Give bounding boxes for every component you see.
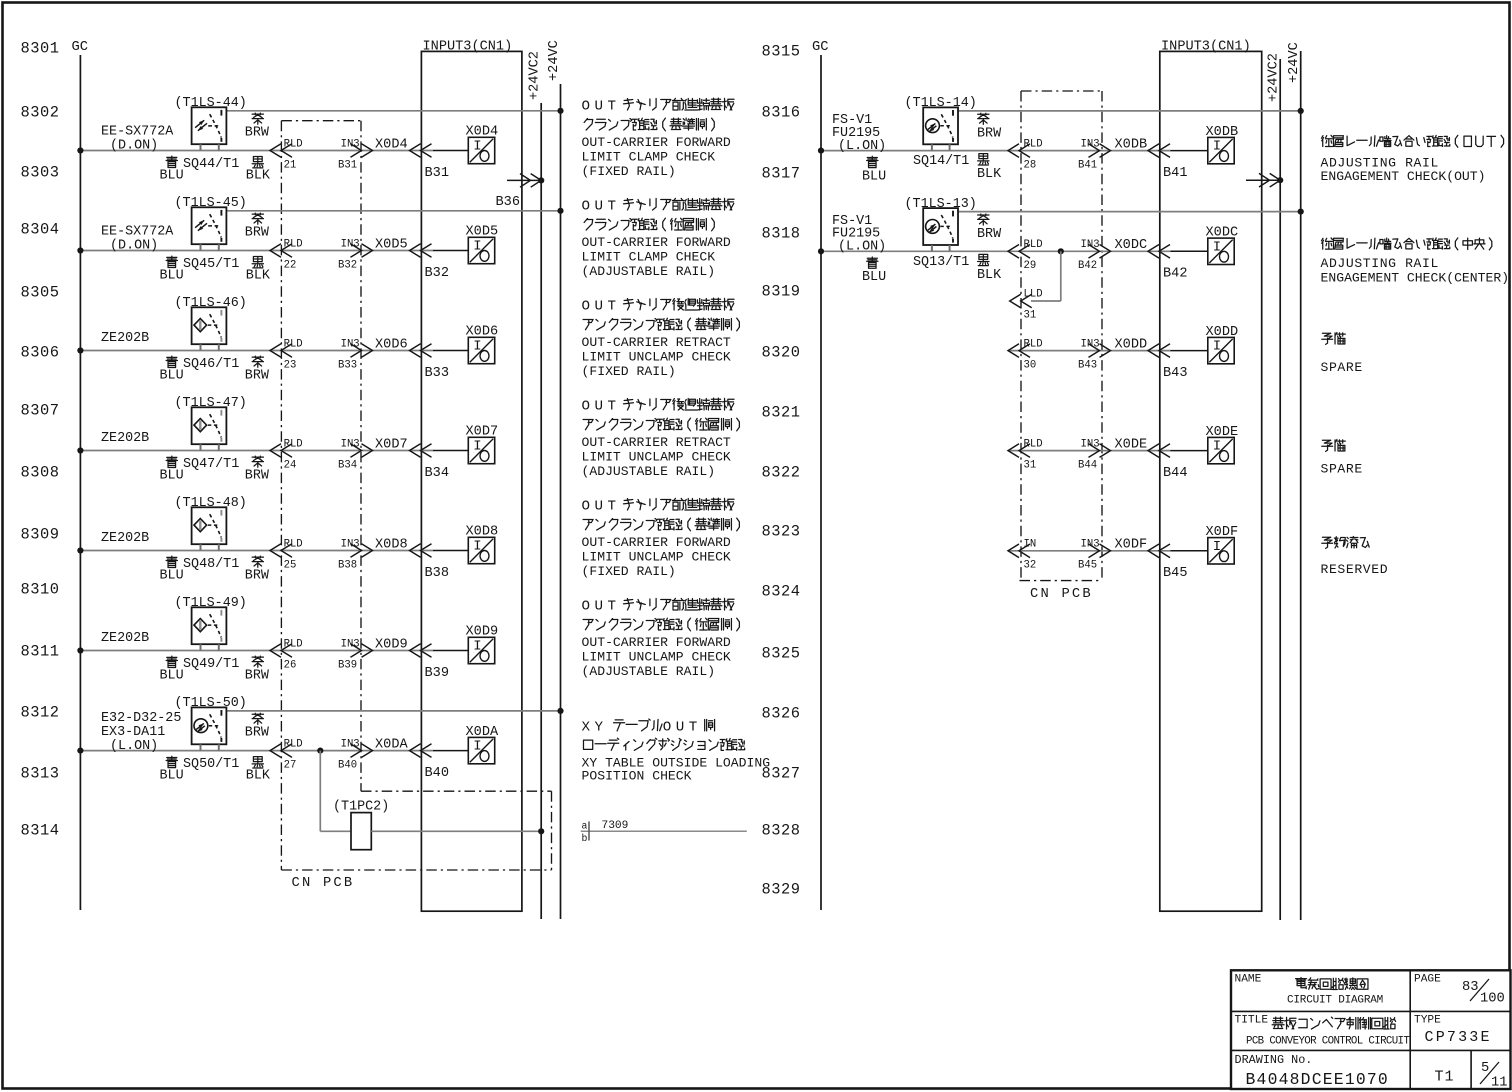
wire arrow to I/O box <box>433 750 468 752</box>
svg-text:26: 26 <box>284 659 297 671</box>
power rail +24VC left <box>560 84 562 919</box>
svg-text:BLK: BLK <box>246 168 271 183</box>
svg-text:B32: B32 <box>338 259 357 271</box>
svg-text:XY: XY <box>582 719 608 735</box>
svg-text:8309: 8309 <box>21 526 60 544</box>
svg-text:IN3: IN3 <box>1081 239 1100 251</box>
svg-text:X0D6: X0D6 <box>466 325 499 340</box>
svg-text:(T1LS-50): (T1LS-50) <box>175 696 247 711</box>
svg-text:24: 24 <box>284 459 297 471</box>
svg-text:B43: B43 <box>1163 366 1187 381</box>
svg-text:B42: B42 <box>1163 267 1187 282</box>
wire rung X0DD horizontal <box>1008 350 1171 352</box>
wire SQ45/T1 BRW to +24VC <box>226 210 560 212</box>
svg-text:B34: B34 <box>338 459 357 471</box>
svg-text:B31: B31 <box>425 166 449 181</box>
svg-text:PAGE: PAGE <box>1414 974 1441 986</box>
svg-text:(T1LS-46): (T1LS-46) <box>175 296 247 311</box>
junction GC right <box>818 248 824 254</box>
junction +24VC <box>557 708 563 714</box>
svg-text:8317: 8317 <box>762 165 801 183</box>
svg-text:RLD: RLD <box>284 238 303 250</box>
svg-text:RLD: RLD <box>284 438 303 450</box>
svg-text:X0DD: X0DD <box>1206 325 1239 340</box>
svg-text:SQ47/T1: SQ47/T1 <box>183 457 239 472</box>
svg-text:RLD: RLD <box>284 738 303 750</box>
svg-text:X0D9: X0D9 <box>375 637 408 652</box>
svg-text:BLU: BLU <box>160 568 184 583</box>
svg-text:8322: 8322 <box>762 464 801 482</box>
connector pin arrow at INPUT3 right <box>1148 444 1170 458</box>
svg-text:8303: 8303 <box>21 164 60 182</box>
svg-text:8319: 8319 <box>762 283 801 301</box>
svg-text:(FIXED RAIL): (FIXED RAIL) <box>582 564 676 579</box>
svg-text:B32: B32 <box>425 266 449 281</box>
svg-text:SQ13/T1: SQ13/T1 <box>913 255 969 270</box>
svg-text:B41: B41 <box>1078 159 1097 171</box>
wire rung X0D4 horizontal <box>80 150 433 152</box>
svg-text:BLU: BLU <box>160 768 184 783</box>
svg-text:B33: B33 <box>425 366 449 381</box>
svg-text:CIRCUIT DIAGRAM: CIRCUIT DIAGRAM <box>1287 995 1383 1007</box>
svg-text:8314: 8314 <box>21 822 60 840</box>
wire rung X0DF horizontal <box>1008 550 1171 552</box>
svg-text:X0DF: X0DF <box>1206 525 1239 540</box>
svg-text:T1: T1 <box>1435 1069 1455 1086</box>
connector pins RLD 28 / IN3 B41 <box>1008 144 1030 158</box>
connector pins IN 32 / IN3 B45 <box>1008 544 1030 558</box>
svg-text:IN3: IN3 <box>341 438 360 450</box>
junction rung X0DC to LLD <box>1058 248 1064 254</box>
label wire colors <box>252 213 263 224</box>
svg-text:8306: 8306 <box>21 344 60 362</box>
wire GC bus right <box>820 55 822 910</box>
svg-text:B39: B39 <box>338 659 357 671</box>
svg-text:IN3: IN3 <box>341 238 360 250</box>
svg-text:E32-D32-25: E32-D32-25 <box>101 711 181 726</box>
svg-text:B42: B42 <box>1078 260 1097 272</box>
svg-text:X0DC: X0DC <box>1206 226 1239 241</box>
junction +24VC right <box>1298 108 1304 114</box>
svg-text:OUT-CARRIER FORWARD: OUT-CARRIER FORWARD <box>582 635 731 650</box>
svg-text:INPUT3(CN1): INPUT3(CN1) <box>1161 40 1251 55</box>
svg-text:SQ45/T1: SQ45/T1 <box>183 257 239 272</box>
wire rung X0D5 horizontal <box>80 250 433 252</box>
svg-text:SQ50/T1: SQ50/T1 <box>183 757 239 772</box>
svg-text:8308: 8308 <box>21 464 60 482</box>
svg-text:IN3: IN3 <box>341 738 360 750</box>
junction GC <box>77 147 83 153</box>
svg-text:OUT-CARRIER RETRACT: OUT-CARRIER RETRACT <box>582 435 731 450</box>
svg-text:(T1LS-49): (T1LS-49) <box>175 596 247 611</box>
power rail +24VC right <box>1300 51 1302 920</box>
I/O input X0DF <box>1208 538 1234 564</box>
pin B36 arrow to +24VC2 <box>507 179 541 181</box>
svg-text:(T1LS-13): (T1LS-13) <box>905 197 977 212</box>
svg-text:B36: B36 <box>496 195 520 210</box>
svg-text:32: 32 <box>1024 560 1037 572</box>
wire SQ14/T1 BRW to +24VC right <box>958 110 1301 112</box>
wire LLD 31 <box>1060 251 1062 301</box>
svg-text:BRW: BRW <box>245 468 270 483</box>
svg-text:21: 21 <box>284 159 297 171</box>
sensor pins SQ46/T1 <box>200 344 202 350</box>
junction +24VC right <box>1298 209 1304 215</box>
wire arrow to I/O box <box>433 450 468 452</box>
power rail +24VC2 right <box>1279 59 1281 920</box>
svg-text:BLK: BLK <box>246 768 271 783</box>
label wire colors right <box>978 214 989 225</box>
svg-text:8313: 8313 <box>21 765 60 783</box>
svg-text:(FIXED RAIL): (FIXED RAIL) <box>582 164 676 179</box>
svg-text:B43: B43 <box>1078 359 1097 371</box>
description right row 4 spare <box>1322 439 1345 451</box>
relay contact T1PC2 <box>351 813 371 850</box>
svg-text:OUT-CARRIER FORWARD: OUT-CARRIER FORWARD <box>582 535 731 550</box>
svg-text:8318: 8318 <box>762 225 801 243</box>
connector pin arrow at INPUT3 <box>410 644 432 658</box>
svg-text:CN PCB: CN PCB <box>292 876 355 891</box>
I/O input X0D5 <box>468 237 494 263</box>
svg-text:B34: B34 <box>425 466 449 481</box>
wire SQ13/T1 BRW to +24VC right <box>958 211 1301 213</box>
I/O input X0DA <box>468 737 494 763</box>
description right row 3 spare <box>1322 332 1345 344</box>
svg-text:SQ49/T1: SQ49/T1 <box>183 657 239 672</box>
svg-text:(L.ON): (L.ON) <box>838 240 886 255</box>
svg-text:OUT-CARRIER FORWARD: OUT-CARRIER FORWARD <box>582 235 731 250</box>
wire arrow to I/O box <box>433 350 468 352</box>
svg-text:X0D7: X0D7 <box>375 437 408 452</box>
svg-text:BLU: BLU <box>160 268 184 283</box>
svg-text:EE-SX772A: EE-SX772A <box>101 125 174 140</box>
connector pins RLD 29 / IN3 B42 <box>1008 245 1030 259</box>
sensor SQ13/T1 (T1LS-13) <box>923 208 958 245</box>
svg-text:OUT-CARRIER FORWARD: OUT-CARRIER FORWARD <box>582 135 731 150</box>
svg-text:LLD: LLD <box>1024 289 1043 301</box>
svg-text:OUT: OUT <box>582 599 621 615</box>
svg-text:OUT: OUT <box>582 299 621 315</box>
connector pins RLD 25 / IN3 B38 <box>270 544 292 558</box>
svg-text:IN3: IN3 <box>341 138 360 150</box>
svg-text:IN3: IN3 <box>1081 438 1100 450</box>
svg-text:100: 100 <box>1480 992 1505 1007</box>
svg-text:BRW: BRW <box>245 725 270 740</box>
svg-text:B40: B40 <box>425 766 449 781</box>
wire arrow to I/O box <box>433 250 468 252</box>
svg-text:LIMIT UNCLAMP CHECK: LIMIT UNCLAMP CHECK <box>582 650 731 665</box>
connector pin arrow at INPUT3 right <box>1148 245 1170 259</box>
sensor SQ46/T1 (T1LS-46) <box>192 307 227 344</box>
connector pin arrow at INPUT3 right <box>1148 144 1170 158</box>
svg-text:X0DA: X0DA <box>466 725 499 740</box>
sensor SQ44/T1 (T1LS-44) <box>192 107 227 144</box>
connector pin arrow at INPUT3 <box>410 144 432 158</box>
svg-text:B4048DCEE1070: B4048DCEE1070 <box>1246 1070 1389 1089</box>
svg-text:X0D7: X0D7 <box>466 425 499 440</box>
svg-text:SQ44/T1: SQ44/T1 <box>183 157 239 172</box>
connector pin arrow at INPUT3 right <box>1148 344 1170 358</box>
sensor pins <box>931 245 933 251</box>
svg-text:RLD: RLD <box>284 338 303 350</box>
svg-text:+24VC: +24VC <box>1287 42 1302 83</box>
svg-text:8328: 8328 <box>762 822 801 840</box>
svg-text:X0D5: X0D5 <box>375 237 408 252</box>
svg-text:+24VC2: +24VC2 <box>1267 53 1282 102</box>
svg-text:B44: B44 <box>1078 459 1097 471</box>
svg-text:(T1LS-44): (T1LS-44) <box>175 96 247 111</box>
svg-text:X0DB: X0DB <box>1115 137 1148 152</box>
svg-text:X0DD: X0DD <box>1115 337 1148 352</box>
svg-text:IN3: IN3 <box>341 338 360 350</box>
junction GC <box>77 247 83 253</box>
svg-text:BLU: BLU <box>160 368 184 383</box>
svg-text:ZE202B: ZE202B <box>101 331 149 346</box>
svg-text:8311: 8311 <box>21 643 60 661</box>
svg-text:OUT: OUT <box>582 99 621 115</box>
svg-text:ADJUSTING RAIL: ADJUSTING RAIL <box>1321 256 1439 271</box>
svg-text:SPARE: SPARE <box>1321 360 1363 375</box>
svg-text:B44: B44 <box>1163 466 1187 481</box>
svg-text:8321: 8321 <box>762 404 801 422</box>
wire rung X0DE horizontal <box>1008 450 1171 452</box>
svg-text:8325: 8325 <box>762 645 801 663</box>
svg-text:LIMIT CLAMP CHECK: LIMIT CLAMP CHECK <box>582 150 716 165</box>
svg-text:(L.ON): (L.ON) <box>838 139 886 154</box>
svg-text:SPARE: SPARE <box>1321 462 1363 477</box>
svg-text:BLU: BLU <box>862 169 886 184</box>
I/O input X0D7 <box>468 437 494 463</box>
svg-text:27: 27 <box>284 759 297 771</box>
connector pin arrow at INPUT3 <box>410 744 432 758</box>
svg-text:TYPE: TYPE <box>1414 1015 1441 1027</box>
wire rung X0D9 horizontal <box>80 650 433 652</box>
svg-text:BLU: BLU <box>160 168 184 183</box>
connector pin arrow at INPUT3 <box>410 244 432 258</box>
svg-text:8326: 8326 <box>762 705 801 723</box>
svg-text:IN3: IN3 <box>341 638 360 650</box>
svg-text:8310: 8310 <box>21 581 60 599</box>
svg-text:LIMIT UNCLAMP CHECK: LIMIT UNCLAMP CHECK <box>582 550 731 565</box>
description right row 5 reserved <box>1322 536 1369 548</box>
svg-text:X0DC: X0DC <box>1115 238 1148 253</box>
svg-text:X0D9: X0D9 <box>466 625 499 640</box>
svg-text:30: 30 <box>1024 359 1037 371</box>
svg-text:BLU: BLU <box>160 468 184 483</box>
svg-text:X0D8: X0D8 <box>466 525 499 540</box>
connector pins RLD 27 / IN3 B40 <box>270 744 292 758</box>
I/O input X0DE <box>1208 437 1234 463</box>
svg-text:OUT: OUT <box>582 499 621 515</box>
I/O input X0D6 <box>468 337 494 363</box>
wire rung X0D6 horizontal <box>80 350 433 352</box>
wire arrow to I/O box <box>433 150 468 152</box>
svg-text:X0D6: X0D6 <box>375 337 408 352</box>
wire rung X0DB horizontal <box>821 150 1171 152</box>
svg-text:POSITION CHECK: POSITION CHECK <box>582 769 692 784</box>
connector INPUT3(CN1) right box <box>1160 51 1262 911</box>
sensor SQ48/T1 (T1LS-48) <box>192 507 227 544</box>
I/O input X0DC <box>1208 238 1234 264</box>
label wire colors <box>166 356 177 367</box>
svg-text:RLD: RLD <box>1024 438 1043 450</box>
svg-text:ENGAGEMENT CHECK(OUT): ENGAGEMENT CHECK(OUT) <box>1321 169 1486 184</box>
svg-text:8304: 8304 <box>21 221 60 239</box>
svg-text:BRW: BRW <box>245 125 270 140</box>
svg-text:(T1LS-47): (T1LS-47) <box>175 396 247 411</box>
sensor SQ50/T1 (T1LS-50) <box>192 707 227 744</box>
svg-text:BLK: BLK <box>246 268 271 283</box>
junction +24VC <box>557 108 563 114</box>
connector pin arrow at INPUT3 right <box>1148 544 1170 558</box>
connector pins RLD 24 / IN3 B34 <box>270 444 292 458</box>
sensor SQ49/T1 (T1LS-49) <box>192 607 227 644</box>
svg-text:(ADJUSTABLE RAIL): (ADJUSTABLE RAIL) <box>582 664 716 679</box>
CN PCB dash-dot boundary right <box>1020 91 1022 581</box>
svg-text:RLD: RLD <box>284 538 303 550</box>
pin arrow to +24VC2 right <box>1246 179 1280 181</box>
svg-text:RLD: RLD <box>284 638 303 650</box>
wire GC bus left <box>79 55 81 910</box>
svg-text:X0D5: X0D5 <box>466 225 499 240</box>
svg-text:TITLE: TITLE <box>1235 1015 1269 1027</box>
svg-text:8302: 8302 <box>21 104 60 122</box>
svg-text:(D.ON): (D.ON) <box>110 139 158 154</box>
svg-text:8329: 8329 <box>762 881 801 899</box>
svg-text:IN3: IN3 <box>1081 539 1100 551</box>
connector pins RLD 23 / IN3 B33 <box>270 344 292 358</box>
svg-text:B31: B31 <box>338 159 357 171</box>
junction GC <box>77 748 83 754</box>
svg-text:BLU: BLU <box>160 668 184 683</box>
svg-text:X0D8: X0D8 <box>375 537 408 552</box>
connector pins RLD 21 / IN3 B31 <box>270 144 292 158</box>
svg-text:LIMIT UNCLAMP CHECK: LIMIT UNCLAMP CHECK <box>582 450 731 465</box>
svg-text:BRW: BRW <box>977 227 1002 242</box>
svg-text:8307: 8307 <box>21 402 60 420</box>
svg-text:GC: GC <box>72 40 89 55</box>
svg-text:X0D4: X0D4 <box>375 137 408 152</box>
I/O input X0DD <box>1208 337 1234 363</box>
wire rung X0D8 horizontal <box>80 550 433 552</box>
sensor pins <box>931 144 933 150</box>
svg-text:IN3: IN3 <box>1081 338 1100 350</box>
svg-text:(T1LS-48): (T1LS-48) <box>175 496 247 511</box>
svg-text:BLU: BLU <box>862 270 886 285</box>
junction +24VC2 T1PC2 <box>538 828 544 834</box>
svg-text:ZE202B: ZE202B <box>101 431 149 446</box>
svg-text:SQ46/T1: SQ46/T1 <box>183 357 239 372</box>
svg-text:ENGAGEMENT CHECK(CENTER): ENGAGEMENT CHECK(CENTER) <box>1321 271 1510 286</box>
svg-text:22: 22 <box>284 259 297 271</box>
svg-text:a: a <box>582 821 588 832</box>
connector pins RLD 30 / IN3 B43 <box>1008 344 1030 358</box>
svg-text:8301: 8301 <box>21 40 60 58</box>
svg-text:8324: 8324 <box>762 583 801 601</box>
junction GC <box>77 647 83 653</box>
svg-text:EE-SX772A: EE-SX772A <box>101 225 174 240</box>
svg-text:X0DE: X0DE <box>1115 437 1148 452</box>
svg-text:BLK: BLK <box>977 167 1002 182</box>
svg-text:RLD: RLD <box>1024 239 1043 251</box>
label wire colors right <box>978 113 989 124</box>
svg-text:LIMIT UNCLAMP CHECK: LIMIT UNCLAMP CHECK <box>582 350 731 365</box>
label wire colors <box>166 456 177 467</box>
svg-text:8320: 8320 <box>762 344 801 362</box>
svg-text:25: 25 <box>284 559 297 571</box>
svg-text:RESERVED: RESERVED <box>1321 562 1389 577</box>
svg-text:(D.ON): (D.ON) <box>110 239 158 254</box>
label wire colors <box>166 656 177 667</box>
connector pins RLD 22 / IN3 B32 <box>270 244 292 258</box>
I/O input X0D8 <box>468 537 494 563</box>
svg-text:28: 28 <box>1024 159 1037 171</box>
svg-text:X0DA: X0DA <box>375 737 408 752</box>
junction GC <box>77 547 83 553</box>
svg-text:BRW: BRW <box>245 568 270 583</box>
svg-text:B33: B33 <box>338 359 357 371</box>
svg-text:(T1PC2): (T1PC2) <box>333 800 389 815</box>
connector pins RLD 31 / IN3 B44 <box>1008 444 1030 458</box>
junction +24VC <box>557 208 563 214</box>
svg-text:X0DE: X0DE <box>1206 425 1239 440</box>
junction GC <box>77 447 83 453</box>
svg-text:CN PCB: CN PCB <box>1030 587 1093 602</box>
svg-text:LIMIT CLAMP CHECK: LIMIT CLAMP CHECK <box>582 250 716 265</box>
connector pin arrow at INPUT3 <box>410 544 432 558</box>
svg-text:SQ48/T1: SQ48/T1 <box>183 557 239 572</box>
svg-text:IN: IN <box>1024 539 1037 551</box>
sensor pins SQ48/T1 <box>200 544 202 550</box>
sensor pins SQ50/T1 <box>200 744 202 750</box>
sensor pins SQ47/T1 <box>200 444 202 450</box>
svg-text:(FIXED RAIL): (FIXED RAIL) <box>582 364 676 379</box>
connector pin arrow at INPUT3 <box>410 344 432 358</box>
wire SQ50/T1 BRW to +24VC <box>226 710 560 712</box>
svg-text:31: 31 <box>1024 310 1037 322</box>
svg-text:CP733E: CP733E <box>1425 1029 1492 1046</box>
wire arrow to I/O box <box>433 550 468 552</box>
interpage link 7309 a/b <box>581 830 747 832</box>
junction +24VC2 right <box>1277 177 1283 183</box>
title block frame <box>1231 970 1511 1089</box>
svg-text:X0D4: X0D4 <box>466 125 499 140</box>
svg-text:BRW: BRW <box>245 225 270 240</box>
svg-text:(ADJUSTABLE RAIL): (ADJUSTABLE RAIL) <box>582 264 716 279</box>
sensor SQ47/T1 (T1LS-47) <box>192 407 227 444</box>
sensor pins SQ49/T1 <box>200 644 202 650</box>
label wire colors <box>252 713 263 724</box>
svg-text:B45: B45 <box>1078 560 1097 572</box>
I/O input X0D9 <box>468 637 494 663</box>
svg-text:NAME: NAME <box>1235 974 1262 986</box>
svg-text:IN3: IN3 <box>1081 138 1100 150</box>
wire SQ44/T1 BRW to +24VC <box>226 110 560 112</box>
junction GC <box>77 347 83 353</box>
svg-text:(T1LS-45): (T1LS-45) <box>175 196 247 211</box>
junction GC right <box>818 148 824 154</box>
svg-text:GC: GC <box>812 40 829 55</box>
svg-text:RLD: RLD <box>1024 338 1043 350</box>
sensor pins SQ44/T1 <box>200 144 202 150</box>
svg-text:29: 29 <box>1024 260 1037 272</box>
svg-text:OUT: OUT <box>582 199 621 215</box>
svg-text:OUT: OUT <box>663 719 702 735</box>
svg-text:OUT-CARRIER RETRACT: OUT-CARRIER RETRACT <box>582 335 731 350</box>
svg-text:B41: B41 <box>1163 166 1187 181</box>
svg-text:BRW: BRW <box>977 126 1002 141</box>
svg-text:8305: 8305 <box>21 284 60 302</box>
